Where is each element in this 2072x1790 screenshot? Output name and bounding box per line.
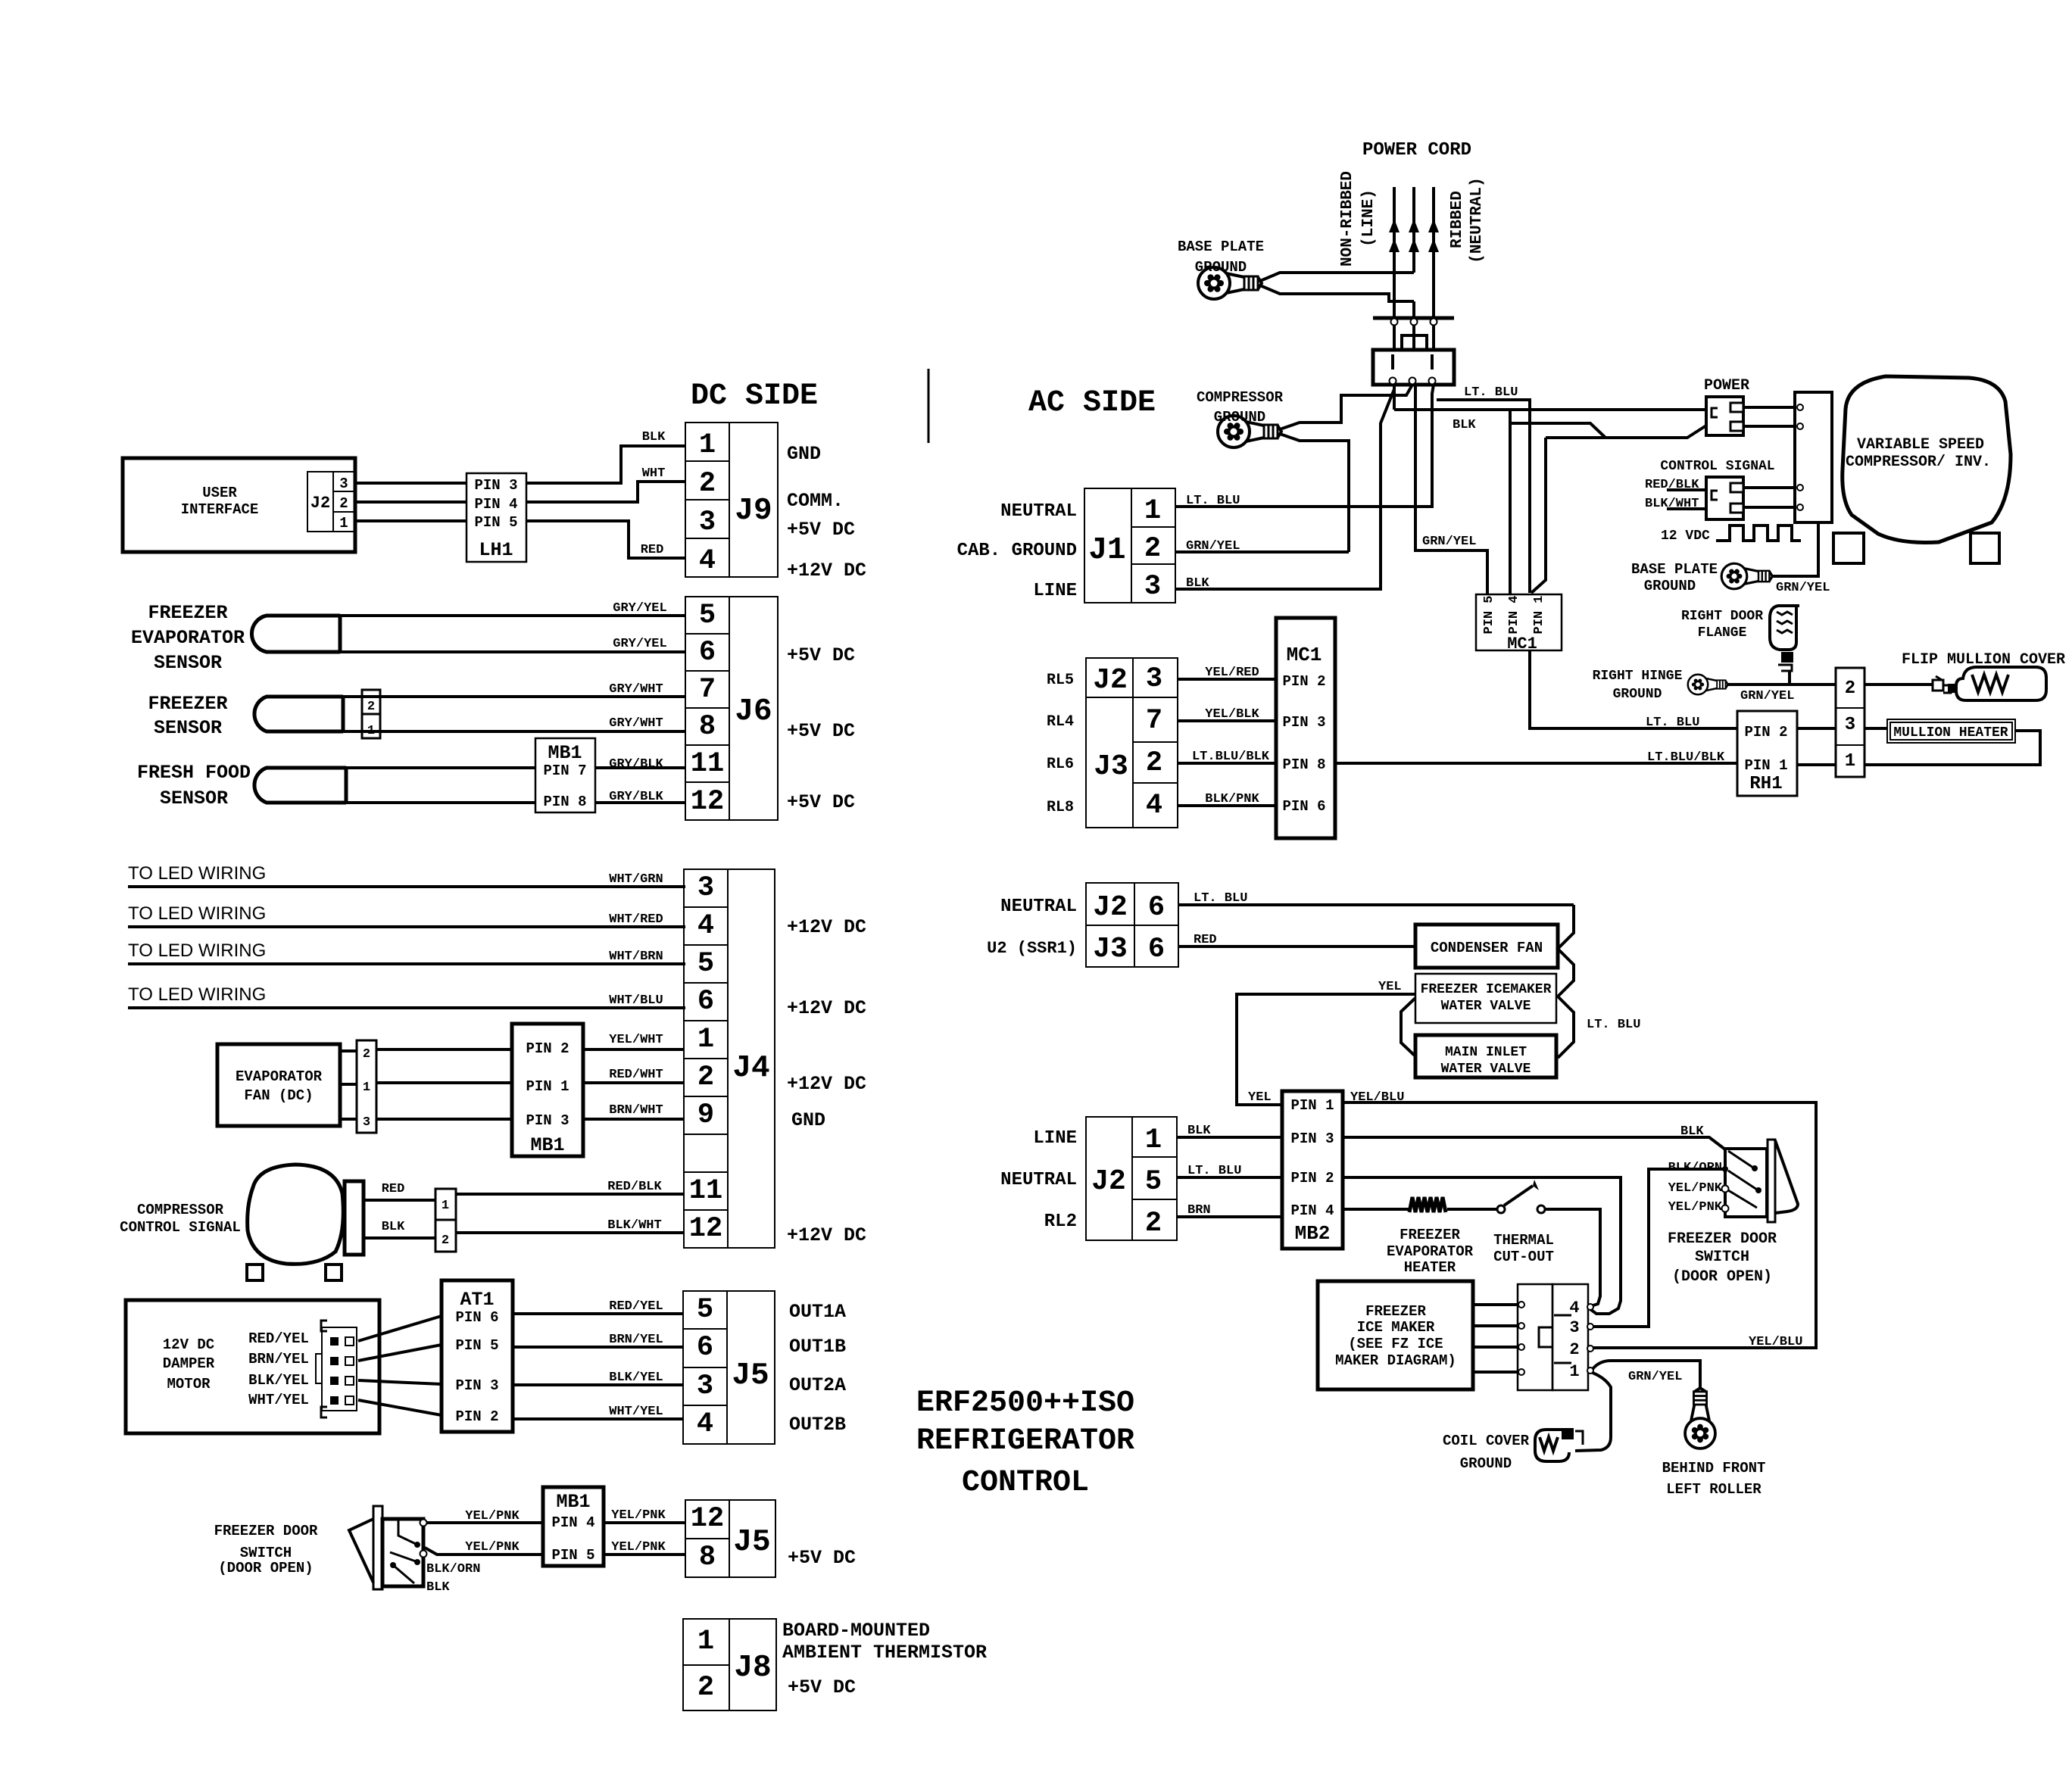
svg-text:PIN 2: PIN 2	[1282, 673, 1325, 690]
wire LT. BLU plug to power connector riser	[1437, 385, 1530, 593]
freezer door switch (DC side)	[214, 1506, 427, 1589]
svg-text:GRY/BLK: GRY/BLK	[609, 790, 663, 804]
svg-text:PIN 4: PIN 4	[1290, 1202, 1334, 1219]
svg-text:VARIABLE SPEED: VARIABLE SPEED	[1857, 436, 1984, 454]
svg-text:YEL: YEL	[1248, 1090, 1272, 1105]
svg-text:7: 7	[699, 674, 716, 706]
right door flange clip	[1770, 606, 1799, 685]
wire BLK J1 pin3 to plug line prong	[1175, 389, 1394, 591]
svg-text:TO LED WIRING: TO LED WIRING	[128, 863, 266, 884]
svg-text:PIN 5: PIN 5	[455, 1337, 498, 1354]
svg-text:PIN 5: PIN 5	[1482, 595, 1496, 634]
power cord bus bar	[1373, 318, 1454, 350]
freezer evaporator sensor	[131, 602, 340, 674]
svg-text:PIN 2: PIN 2	[455, 1408, 498, 1425]
connector 2/1 on freezer sensor	[362, 690, 380, 738]
svg-text:PIN 3: PIN 3	[455, 1377, 498, 1394]
svg-text:4: 4	[1146, 790, 1162, 822]
svg-text:FLANGE: FLANGE	[1698, 625, 1747, 641]
connector J4	[684, 869, 775, 1248]
freezer ice maker box	[1318, 1281, 1473, 1389]
title ERF2500++ISO REFRIGERATOR CONTROL	[916, 1386, 1134, 1500]
svg-text:OUT2B: OUT2B	[789, 1414, 846, 1436]
wire damper to AT1 pin3	[358, 1380, 442, 1384]
svg-text:YEL/PNK: YEL/PNK	[611, 1508, 666, 1523]
svg-text:RL2: RL2	[1044, 1212, 1077, 1232]
compressor ground wire to plug	[1280, 385, 1412, 552]
svg-text:RED: RED	[1194, 933, 1217, 947]
svg-text:5: 5	[1145, 1166, 1162, 1198]
svg-text:GRN/YEL: GRN/YEL	[1628, 1370, 1682, 1384]
svg-text:COMPRESSOR/ INV.: COMPRESSOR/ INV.	[1846, 454, 1991, 471]
wire GRN/YEL middle prong to MC1 pin5	[1415, 385, 1487, 594]
svg-text:CONTROL SIGNAL: CONTROL SIGNAL	[1660, 459, 1774, 474]
variable speed compressor blob	[1843, 376, 2011, 543]
svg-text:BLK/YEL: BLK/YEL	[609, 1371, 663, 1385]
svg-text:GROUND: GROUND	[1460, 1455, 1512, 1472]
wire LT. BLU branch to MC1 pin1	[1510, 423, 1706, 593]
wire GRY/YEL to J6 pin6	[340, 637, 685, 652]
svg-text:PIN 2: PIN 2	[1290, 1170, 1334, 1187]
svg-text:TO LED WIRING: TO LED WIRING	[128, 940, 266, 961]
wire RED/YEL to J5 pin5	[513, 1299, 683, 1314]
svg-text:RL6: RL6	[1047, 756, 1074, 773]
ice maker connector	[1518, 1284, 1593, 1390]
svg-text:FREEZER: FREEZER	[148, 602, 227, 624]
svg-text:8: 8	[699, 1542, 716, 1573]
svg-text:EVAPORATOR: EVAPORATOR	[131, 627, 245, 649]
wire power connector to inverter pin1	[1743, 404, 1803, 410]
svg-text:+5V DC: +5V DC	[788, 1676, 856, 1698]
svg-text:6: 6	[697, 986, 714, 1018]
svg-text:2: 2	[699, 468, 716, 500]
label COMPRESSOR GROUND	[1197, 389, 1284, 426]
svg-text:NEUTRAL: NEUTRAL	[1000, 1170, 1077, 1190]
svg-text:WHT/BLU: WHT/BLU	[609, 993, 663, 1008]
svg-text:3: 3	[1845, 715, 1855, 735]
svg-text:PIN 2: PIN 2	[526, 1040, 569, 1057]
valve left bracket	[1401, 998, 1415, 1056]
wire BLK/ORN door switch to ice maker connector pin3	[1590, 1169, 1725, 1327]
AC/DC divider line	[928, 369, 930, 443]
base plate ground wire to middle prong	[1260, 273, 1414, 301]
svg-text:4: 4	[1569, 1299, 1579, 1318]
wire YEL/RED J2-3 to MC1 pin2	[1178, 666, 1276, 680]
svg-text:BLK: BLK	[382, 1220, 405, 1234]
svg-text:J8: J8	[734, 1651, 771, 1686]
connector MC1 (board)	[1276, 618, 1335, 838]
connector J5	[683, 1291, 775, 1444]
svg-text:USER: USER	[202, 485, 237, 501]
wire GRY/YEL to J6 pin5	[340, 601, 685, 616]
svg-text:FREEZER: FREEZER	[1400, 1227, 1460, 1243]
freezer sensor	[148, 693, 343, 739]
wire RED LH1 to J9 pin4	[526, 521, 685, 558]
svg-text:RIBBED: RIBBED	[1449, 191, 1466, 248]
svg-text:2: 2	[442, 1233, 449, 1248]
wire LT. BLU zigzag bus	[1558, 905, 1640, 1058]
svg-text:+12V DC: +12V DC	[787, 560, 866, 582]
label BEHIND FRONT LEFT ROLLER	[1662, 1460, 1766, 1498]
svg-text:BASE PLATE: BASE PLATE	[1178, 239, 1264, 255]
svg-text:PIN 1: PIN 1	[1532, 595, 1546, 634]
12V DC damper motor box	[126, 1300, 379, 1433]
svg-text:PIN 4: PIN 4	[474, 496, 517, 513]
wire GRY/WHT to J6 pin8	[343, 716, 685, 731]
svg-text:FREEZER: FREEZER	[1365, 1303, 1426, 1320]
svg-text:(SEE FZ ICE: (SEE FZ ICE	[1348, 1336, 1443, 1352]
svg-text:PIN 4: PIN 4	[1507, 595, 1521, 634]
svg-text:TO LED WIRING: TO LED WIRING	[128, 903, 266, 924]
main inlet water valve box	[1415, 1035, 1556, 1077]
connector J5 pins 12-8	[685, 1500, 775, 1577]
svg-text:LINE: LINE	[1033, 581, 1077, 601]
compressor foot right	[1971, 533, 1999, 563]
svg-text:GROUND: GROUND	[1644, 578, 1696, 594]
wire YEL/PNK switch to MB1 pin4	[426, 1509, 543, 1523]
flip mullion cover clip	[1933, 676, 1957, 693]
wire GRY/WHT to J6 pin7	[343, 682, 685, 697]
wire BLK/WHT to J4 pin12	[456, 1218, 684, 1233]
svg-text:6: 6	[699, 637, 716, 669]
svg-text:U2 (SSR1): U2 (SSR1)	[987, 939, 1077, 958]
label RIGHT DOOR FLANGE	[1681, 609, 1763, 641]
wires ice maker to connector	[1473, 1302, 1524, 1375]
wire GRN/YEL J1 pin2	[1175, 539, 1349, 554]
fresh food sensor	[137, 762, 346, 809]
svg-text:LINE: LINE	[1033, 1128, 1077, 1149]
wire fan pin3 to MB1	[376, 1118, 512, 1121]
svg-text:GND: GND	[791, 1109, 825, 1131]
power cord line prong	[1389, 187, 1400, 318]
svg-text:PIN 3: PIN 3	[1282, 714, 1325, 731]
wire YEL/WHT to J4 pin1	[583, 1033, 684, 1049]
wire LT. BLU J2-5 to MB2 pin2	[1177, 1164, 1282, 1178]
svg-text:CUT-OUT: CUT-OUT	[1493, 1249, 1554, 1265]
connector LH1	[467, 473, 526, 562]
wire BLK J2-1 to MB2 pin3	[1177, 1124, 1282, 1138]
wire BLK riser to MC1 pin4	[1509, 410, 1512, 594]
svg-text:RL4: RL4	[1047, 713, 1074, 731]
svg-text:MB1: MB1	[548, 742, 582, 764]
wire ice connector pin1 to coil cover ground	[1575, 1373, 1611, 1451]
svg-text:1: 1	[1569, 1362, 1579, 1381]
wire TO LED WIRING WHT/GRN to J4 pin3	[128, 863, 685, 887]
svg-text:LT.BLU/BLK: LT.BLU/BLK	[1192, 750, 1270, 764]
svg-text:FREEZER: FREEZER	[148, 693, 227, 715]
svg-text:3: 3	[1569, 1318, 1579, 1337]
svg-text:FAN (DC): FAN (DC)	[244, 1087, 313, 1104]
wire TO LED WIRING WHT/BLU to J4 pin6	[128, 984, 685, 1008]
svg-text:COMPRESSOR: COMPRESSOR	[137, 1202, 224, 1218]
svg-text:MB1: MB1	[556, 1491, 590, 1513]
svg-text:REFRIGERATOR: REFRIGERATOR	[916, 1424, 1134, 1458]
svg-text:12: 12	[689, 1213, 722, 1245]
connector 2/1/3 on evaporator fan	[340, 1040, 376, 1133]
svg-text:COIL COVER: COIL COVER	[1443, 1433, 1530, 1449]
wire YEL/PNK MB1 to J5 pin8	[604, 1540, 685, 1555]
svg-text:+5V DC: +5V DC	[787, 519, 855, 541]
svg-text:PIN 1: PIN 1	[1744, 757, 1787, 774]
svg-text:TO LED WIRING: TO LED WIRING	[128, 984, 266, 1005]
wire YEL/PNK switch to MB1 pin5	[425, 1540, 543, 1555]
svg-text:4: 4	[697, 910, 714, 942]
wire connector pin3 to mullion heater	[1864, 727, 1887, 730]
svg-text:RED/YEL: RED/YEL	[609, 1299, 663, 1314]
svg-text:12 VDC: 12 VDC	[1661, 529, 1710, 544]
svg-text:CONTROL SIGNAL: CONTROL SIGNAL	[120, 1219, 241, 1236]
wire BLK plug to power connector	[1394, 385, 1706, 432]
svg-text:GRY/BLK: GRY/BLK	[609, 757, 663, 772]
12 VDC square wave	[1716, 525, 1801, 541]
svg-text:1: 1	[1144, 495, 1161, 527]
svg-text:J5: J5	[732, 1358, 769, 1393]
svg-text:+12V DC: +12V DC	[787, 1073, 866, 1095]
svg-text:1: 1	[697, 1626, 714, 1657]
svg-text:BLK: BLK	[642, 430, 666, 444]
svg-text:2: 2	[1845, 678, 1855, 699]
connector 2/3/1	[1836, 668, 1864, 777]
svg-text:J3: J3	[1093, 933, 1128, 965]
svg-text:HEATER: HEATER	[1404, 1259, 1456, 1276]
svg-text:LT. BLU: LT. BLU	[1187, 1164, 1241, 1178]
svg-text:FREEZER DOOR: FREEZER DOOR	[1668, 1230, 1777, 1248]
svg-text:1: 1	[699, 429, 716, 461]
svg-text:2: 2	[697, 1062, 714, 1093]
svg-text:RIGHT DOOR: RIGHT DOOR	[1681, 609, 1763, 624]
svg-text:BLK: BLK	[426, 1580, 450, 1595]
power cord neutral prong	[1428, 187, 1439, 318]
wire fan pin2 to MB1	[376, 1048, 512, 1051]
svg-text:RL5: RL5	[1047, 672, 1074, 689]
wire LT. BLU J2-6 to condenser fan bus	[1178, 891, 1574, 906]
compressor control signal blob	[120, 1165, 364, 1280]
connector J1	[1084, 488, 1175, 603]
power cord middle prong	[1409, 187, 1419, 318]
svg-text:DC SIDE: DC SIDE	[691, 379, 818, 413]
wire GRN/YEL ice connector pin1 to roller ground	[1593, 1361, 1700, 1388]
svg-text:OUT1B: OUT1B	[789, 1336, 846, 1358]
svg-text:NON-RIBBED: NON-RIBBED	[1339, 171, 1356, 267]
svg-text:WHT: WHT	[642, 466, 666, 481]
wire YEL/BLK to MC1 pin3	[1178, 707, 1276, 722]
svg-text:SENSOR: SENSOR	[154, 717, 222, 739]
wire power connector to inverter pin2	[1743, 423, 1803, 429]
svg-text:FREEZER DOOR: FREEZER DOOR	[214, 1523, 318, 1539]
wire damper to AT1 pin5	[358, 1345, 442, 1361]
svg-text:PIN 3: PIN 3	[474, 477, 517, 494]
svg-text:CONTROL: CONTROL	[962, 1466, 1089, 1500]
wire control signal connector to inverter pin4	[1743, 504, 1803, 510]
wire LT. BLU MB2 pin2 to ice maker connector pin4	[1343, 1177, 1621, 1314]
svg-text:GRY/WHT: GRY/WHT	[609, 716, 663, 731]
thermal cut-out	[1493, 1180, 1554, 1265]
svg-text:12V DC: 12V DC	[163, 1336, 214, 1353]
svg-text:LH1: LH1	[479, 539, 513, 561]
svg-text:+12V DC: +12V DC	[787, 997, 866, 1019]
svg-text:BEHIND FRONT: BEHIND FRONT	[1662, 1460, 1766, 1477]
svg-text:J9: J9	[735, 494, 772, 529]
svg-text:6: 6	[1148, 892, 1165, 924]
svg-text:YEL/PNK: YEL/PNK	[1668, 1181, 1723, 1196]
svg-text:BLK/YEL: BLK/YEL	[248, 1372, 309, 1389]
svg-text:PIN 6: PIN 6	[455, 1309, 498, 1326]
svg-text:2: 2	[363, 1047, 370, 1062]
svg-text:DAMPER: DAMPER	[163, 1355, 215, 1372]
wire fan pin1 to MB1	[376, 1081, 512, 1084]
svg-text:BLK: BLK	[1187, 1124, 1211, 1138]
base plate ground lug (right)	[1721, 563, 1772, 589]
wire heater to thermal cut-out	[1447, 1208, 1496, 1211]
connector J9	[685, 423, 778, 577]
wire YEL/BLU MB2 pin1 loop to ice maker connector pin2	[1343, 1090, 1816, 1349]
connector J8	[683, 1619, 776, 1710]
power cord plug body	[1373, 335, 1454, 385]
svg-text:1: 1	[442, 1199, 449, 1213]
wire J2 pin2 to LH1	[354, 501, 467, 504]
coil cover ground clip	[1535, 1428, 1583, 1461]
freezer icemaker water valve box	[1415, 974, 1556, 1023]
svg-text:MULLION HEATER: MULLION HEATER	[1893, 725, 2008, 741]
svg-text:2: 2	[339, 495, 348, 512]
flip mullion cover symbol	[1956, 667, 2046, 700]
svg-text:AMBIENT THERMISTOR: AMBIENT THERMISTOR	[782, 1642, 987, 1664]
svg-text:J3: J3	[1094, 750, 1128, 783]
svg-text:(NEUTRAL): (NEUTRAL)	[1468, 177, 1486, 263]
compressor foot left	[1833, 533, 1864, 563]
svg-text:SWITCH: SWITCH	[240, 1545, 292, 1561]
label BASE PLATE GROUND (top)	[1178, 239, 1264, 276]
svg-text:3: 3	[699, 507, 716, 538]
svg-text:WATER VALVE: WATER VALVE	[1441, 1062, 1531, 1077]
wire RED compressor to connector	[364, 1182, 435, 1200]
svg-text:NEUTRAL: NEUTRAL	[1000, 897, 1077, 917]
svg-text:2: 2	[367, 700, 375, 714]
wire BLK/PNK to MC1 pin6	[1178, 792, 1276, 806]
svg-text:2: 2	[697, 1672, 714, 1704]
svg-text:CONDENSER FAN: CONDENSER FAN	[1431, 940, 1543, 956]
svg-text:PIN 2: PIN 2	[1744, 724, 1787, 741]
svg-text:YEL: YEL	[1378, 980, 1402, 994]
svg-text:12: 12	[691, 786, 724, 818]
connector MB1 pins 4-5	[543, 1487, 604, 1566]
svg-text:RIGHT HINGE: RIGHT HINGE	[1593, 669, 1683, 684]
power connector	[1706, 397, 1743, 435]
wire BRN/WHT to J4 pin9	[583, 1103, 684, 1119]
connector J2/J3 relay block	[1086, 658, 1178, 828]
evaporator fan box	[217, 1044, 340, 1126]
wire RED J3-6 to condenser fan	[1178, 933, 1415, 947]
svg-text:2: 2	[1145, 1208, 1162, 1240]
connector J2/J3 pins 6-6	[1086, 883, 1178, 967]
svg-text:WATER VALVE: WATER VALVE	[1441, 999, 1531, 1014]
wire GRY/BLK to J6 pin11	[346, 757, 685, 772]
svg-text:OUT2A: OUT2A	[789, 1374, 846, 1396]
svg-text:RL8: RL8	[1047, 799, 1074, 816]
svg-text:+5V DC: +5V DC	[787, 644, 855, 666]
svg-text:GRY/YEL: GRY/YEL	[613, 601, 666, 616]
damper motor connector icon	[316, 1321, 357, 1417]
label RIGHT HINGE GROUND	[1593, 669, 1683, 702]
svg-text:PIN 8: PIN 8	[1282, 756, 1325, 773]
svg-text:1: 1	[697, 1024, 714, 1056]
svg-text:MB2: MB2	[1295, 1222, 1331, 1245]
wire RED/BLK into control signal connector	[1645, 478, 1706, 492]
connector MB2	[1282, 1091, 1343, 1249]
base plate ground lug (top)	[1198, 267, 1262, 299]
svg-text:AT1: AT1	[460, 1289, 494, 1311]
svg-text:+5V DC: +5V DC	[788, 1547, 856, 1569]
svg-text:J2: J2	[310, 494, 330, 513]
svg-text:AC SIDE: AC SIDE	[1028, 386, 1156, 420]
wire GRY/BLK to J6 pin12	[346, 790, 685, 804]
wire mullion heater loop to connector pin1	[1864, 731, 2040, 765]
svg-text:SENSOR: SENSOR	[160, 787, 228, 809]
svg-text:YEL/PNK: YEL/PNK	[611, 1540, 666, 1555]
svg-text:ICE MAKER: ICE MAKER	[1357, 1319, 1435, 1336]
svg-text:WHT/GRN: WHT/GRN	[609, 872, 663, 887]
svg-text:5: 5	[697, 948, 714, 980]
wire GRN/YEL right hinge to connector	[1728, 685, 1836, 703]
svg-text:COMPRESSOR: COMPRESSOR	[1197, 389, 1284, 406]
svg-text:SWITCH: SWITCH	[1695, 1249, 1749, 1266]
svg-text:GND: GND	[787, 443, 821, 465]
svg-text:BRN/WHT: BRN/WHT	[609, 1103, 663, 1118]
svg-text:BRN/YEL: BRN/YEL	[609, 1333, 663, 1347]
label BASE PLATE GROUND (right)	[1631, 561, 1718, 594]
svg-text:PIN 8: PIN 8	[543, 794, 586, 810]
svg-text:INTERFACE: INTERFACE	[181, 501, 259, 518]
svg-text:YEL/WHT: YEL/WHT	[609, 1033, 663, 1047]
svg-text:BLK/PNK: BLK/PNK	[1205, 792, 1259, 806]
wire J2 pin3 to LH1	[354, 482, 467, 485]
svg-text:LEFT ROLLER: LEFT ROLLER	[1666, 1481, 1762, 1498]
freezer evaporator heater coil	[1387, 1197, 1474, 1276]
svg-text:ERF2500++ISO: ERF2500++ISO	[916, 1386, 1134, 1420]
control signal connector	[1706, 477, 1743, 519]
svg-text:2: 2	[1146, 747, 1162, 779]
svg-text:+5V DC: +5V DC	[787, 791, 855, 813]
svg-text:RED/BLK: RED/BLK	[607, 1180, 662, 1194]
connector 1/2 compressor	[435, 1189, 456, 1252]
svg-text:1: 1	[363, 1081, 370, 1095]
svg-text:J6: J6	[735, 694, 772, 729]
connector MB1 pins 2-1-3	[512, 1024, 583, 1156]
svg-text:3: 3	[339, 476, 348, 492]
freezer door switch (AC side)	[1668, 1140, 1798, 1286]
mullion heater box	[1887, 719, 2015, 743]
svg-text:1: 1	[1845, 751, 1855, 772]
svg-text:FRESH FOOD: FRESH FOOD	[137, 762, 251, 784]
svg-text:J2: J2	[1093, 891, 1128, 924]
svg-text:FREEZER ICEMAKER: FREEZER ICEMAKER	[1421, 982, 1552, 997]
wire BRN/YEL to J5 pin6	[513, 1333, 683, 1347]
svg-text:(LINE): (LINE)	[1360, 189, 1378, 247]
compressor ground lug	[1218, 416, 1281, 447]
svg-text:BOARD-MOUNTED: BOARD-MOUNTED	[782, 1620, 930, 1642]
svg-text:11: 11	[689, 1175, 722, 1207]
svg-text:J1: J1	[1088, 533, 1125, 568]
wire BLK LH1 to J9 pin1	[526, 430, 685, 483]
label COIL COVER GROUND	[1443, 1433, 1530, 1472]
svg-text:PIN 7: PIN 7	[543, 762, 586, 779]
svg-text:11: 11	[691, 748, 724, 780]
svg-text:LT. BLU: LT. BLU	[1194, 891, 1247, 906]
svg-text:YEL/BLU: YEL/BLU	[1749, 1335, 1802, 1349]
svg-text:RED: RED	[641, 543, 664, 557]
svg-text:4: 4	[697, 1408, 713, 1440]
svg-text:3: 3	[363, 1115, 370, 1130]
